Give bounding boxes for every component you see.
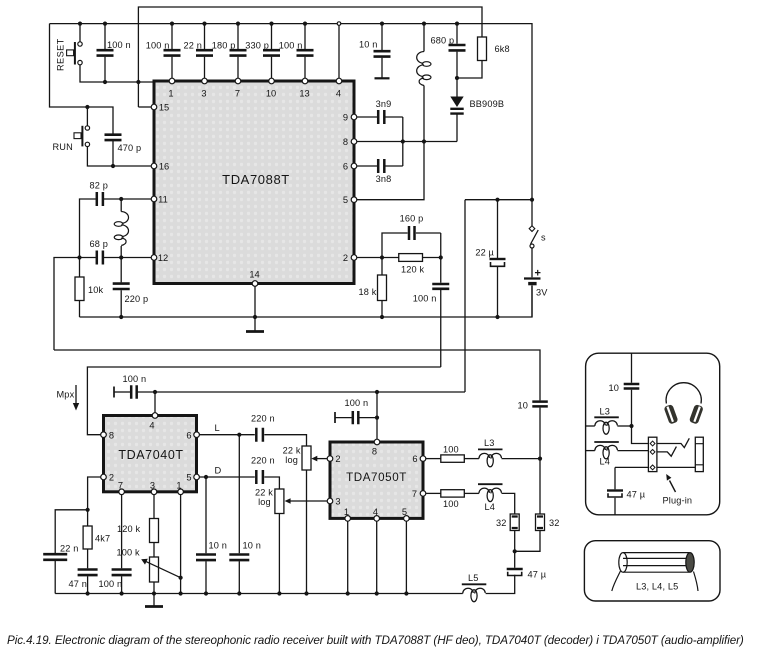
svg-text:2: 2 bbox=[335, 454, 340, 464]
wire 470p bottom lead bbox=[112, 140, 114, 166]
junction (457,23.6) bbox=[455, 22, 459, 26]
capacitor 330p (pin10) bbox=[271, 24, 273, 81]
svg-text:Plug-in: Plug-in bbox=[663, 496, 693, 506]
pin 7 U2 bbox=[119, 489, 125, 495]
ferrite rod bbox=[612, 553, 698, 591]
svg-text:10 n: 10 n bbox=[209, 541, 227, 551]
junction (206,477) bbox=[204, 475, 208, 479]
svg-text:6k8: 6k8 bbox=[495, 44, 510, 54]
svg-text:Pic.4.19. Electronic diagram o: Pic.4.19. Electronic diagram of the ster… bbox=[7, 634, 744, 647]
wire pin1 (7040) bbox=[180, 492, 182, 594]
svg-text:100 n: 100 n bbox=[345, 398, 369, 408]
svg-text:log: log bbox=[285, 455, 298, 465]
junction (79.5,257.5) bbox=[77, 255, 81, 259]
junction (180.6,577.7) bbox=[179, 576, 183, 580]
wire pin8 riser (7050) bbox=[376, 392, 378, 439]
svg-text:3n8: 3n8 bbox=[376, 174, 392, 184]
svg-text:4: 4 bbox=[149, 421, 154, 431]
junction (305,23.6) bbox=[303, 22, 307, 26]
junction (121.2,199) bbox=[119, 197, 123, 201]
svg-text:3V: 3V bbox=[536, 288, 548, 298]
junction (440.75,257.5) bbox=[439, 255, 443, 259]
capacitor 47n bbox=[78, 570, 98, 576]
resistor 18k bbox=[381, 258, 383, 318]
pin 6 U2 bbox=[194, 432, 200, 438]
svg-text:100 n: 100 n bbox=[279, 41, 303, 51]
wire pin8 to coil node bbox=[354, 141, 424, 143]
svg-text:220 p: 220 p bbox=[125, 294, 149, 304]
svg-text:TDA7088T: TDA7088T bbox=[222, 172, 290, 187]
pin 2 U3 bbox=[327, 456, 333, 462]
resistor 120k (pin2) bbox=[399, 254, 423, 262]
capacitor 180p (pin7) bbox=[237, 24, 239, 81]
junction (87.6,509.8) bbox=[86, 508, 90, 512]
wire to 22n bbox=[55, 510, 87, 553]
junction (540,458.6) bbox=[538, 457, 542, 461]
pin 8 U3 bbox=[374, 439, 380, 445]
svg-text:120 k: 120 k bbox=[401, 265, 424, 275]
svg-text:RESET: RESET bbox=[56, 38, 66, 71]
wire supply riser x=465 bbox=[464, 200, 466, 392]
svg-text:4k7: 4k7 bbox=[95, 534, 110, 544]
resistor 120k (pin3 7040) bbox=[153, 492, 155, 519]
pin 16 U1 bbox=[151, 163, 157, 169]
inductor L4 (plug box) bbox=[586, 450, 595, 452]
pin 2 U1 bbox=[351, 255, 357, 261]
capacitor 3n9 (pin9) bbox=[354, 116, 403, 118]
svg-text:BB909B: BB909B bbox=[470, 99, 505, 109]
switch RUN bbox=[74, 126, 90, 147]
junction (279.4,593.5) bbox=[277, 591, 281, 595]
capacitor 220n (L) bbox=[256, 428, 263, 442]
capacitor 10 (plug box) bbox=[631, 353, 633, 426]
capacitor 47u (output) bbox=[514, 551, 516, 568]
wire pin2 (7040) branch bbox=[88, 477, 101, 510]
pin 8 U1 bbox=[351, 139, 357, 145]
svg-text:100 n: 100 n bbox=[107, 40, 131, 50]
svg-text:100 n: 100 n bbox=[146, 41, 170, 51]
pin 6 U1 bbox=[351, 163, 357, 169]
pin 5 U3 bbox=[404, 516, 410, 522]
junction (206,593.5) bbox=[204, 591, 208, 595]
junction (347.7,593.5) bbox=[346, 591, 350, 595]
pin 4 U2 bbox=[152, 413, 158, 419]
capacitor 22n (pin3) bbox=[204, 24, 206, 81]
wire RESET bottom to IC corner bbox=[80, 65, 154, 82]
svg-text:10 n: 10 n bbox=[359, 40, 377, 50]
svg-text:L3, L4, L5: L3, L4, L5 bbox=[636, 582, 678, 592]
svg-text:L4: L4 bbox=[600, 457, 611, 467]
wire bottom bus bbox=[55, 575, 515, 594]
plug-in box bbox=[586, 353, 720, 515]
resistor 10k bbox=[79, 258, 81, 318]
inductor L2 oscillator coil bbox=[423, 24, 425, 142]
svg-text:5: 5 bbox=[402, 507, 407, 517]
capacitor 100n (pin2 node) bbox=[440, 233, 442, 367]
pin 4 U3 bbox=[374, 516, 380, 522]
junction (497.5,199.7) bbox=[495, 198, 499, 202]
junction (497.5,317) bbox=[495, 315, 499, 319]
resistor 100 (pin6 7050) bbox=[426, 458, 441, 460]
svg-text:+: + bbox=[535, 268, 541, 280]
pin 8 U2 bbox=[101, 432, 107, 438]
svg-text:120 k: 120 k bbox=[117, 524, 140, 534]
svg-text:220 n: 220 n bbox=[251, 414, 275, 424]
wire 7050 bottom pins bbox=[348, 518, 407, 593]
capacitor 22n bbox=[43, 554, 67, 560]
junction (80,23.6) bbox=[78, 22, 82, 26]
resistor 32 (left) bbox=[510, 514, 519, 531]
junction (382,23.6) bbox=[380, 22, 384, 26]
junction (424,23.6) bbox=[422, 22, 426, 26]
pin 5 U1 bbox=[351, 197, 357, 203]
svg-text:TDA7050T: TDA7050T bbox=[346, 471, 407, 484]
junction (105,23.6) bbox=[103, 22, 107, 26]
pin 6 U3 bbox=[420, 456, 426, 462]
svg-text:2: 2 bbox=[109, 473, 114, 483]
svg-text:220 n: 220 n bbox=[251, 456, 275, 466]
svg-text:5: 5 bbox=[186, 473, 191, 483]
resistor 6k8 bbox=[478, 37, 487, 61]
junction (424,141.5) bbox=[422, 139, 426, 143]
svg-text:8: 8 bbox=[372, 447, 377, 457]
capacitor 100n (pin7 7040) bbox=[121, 492, 123, 569]
wire D line (pin5 7040) bbox=[199, 476, 254, 478]
svg-text:100 n: 100 n bbox=[123, 374, 147, 384]
svg-text:22 k: 22 k bbox=[255, 488, 273, 498]
junction (105,82) bbox=[103, 80, 107, 84]
svg-text:47 µ: 47 µ bbox=[627, 490, 646, 500]
svg-text:10: 10 bbox=[266, 89, 276, 99]
jack plug body bbox=[695, 437, 703, 471]
svg-text:D: D bbox=[215, 466, 222, 476]
wire pin4 riser (7040) bbox=[154, 392, 156, 413]
svg-text:s: s bbox=[541, 233, 546, 243]
IC U3 TDA7050T bbox=[330, 442, 423, 518]
svg-text:14: 14 bbox=[249, 270, 259, 280]
wire varicap bottom to coil bbox=[424, 141, 457, 143]
junction (377,392) bbox=[375, 390, 379, 394]
svg-text:6: 6 bbox=[412, 454, 417, 464]
svg-text:680 p: 680 p bbox=[431, 36, 455, 46]
svg-text:32: 32 bbox=[549, 518, 560, 528]
junction (376.7,593.5) bbox=[375, 591, 379, 595]
capacitor 220p bbox=[120, 258, 122, 318]
diode BB909B varicap bbox=[456, 78, 458, 142]
svg-text:10: 10 bbox=[518, 401, 529, 411]
junction (239.3,434.7) bbox=[237, 433, 241, 437]
svg-text:6: 6 bbox=[186, 431, 191, 441]
ground (pin14) bbox=[246, 330, 264, 333]
battery 3V bbox=[524, 277, 541, 279]
svg-text:180 p: 180 p bbox=[212, 41, 236, 51]
capacitor 10n (D) bbox=[205, 477, 207, 594]
capacitor 22u electrolytic bbox=[497, 200, 499, 317]
junction (377,417.6) bbox=[375, 416, 379, 420]
pin 1 U1 bbox=[169, 78, 175, 84]
svg-text:22 k: 22 k bbox=[283, 446, 301, 456]
capacitor 68p bbox=[54, 258, 154, 351]
junction (457,78) bbox=[455, 76, 459, 80]
svg-text:3: 3 bbox=[201, 89, 206, 99]
pin 2 U2 bbox=[101, 474, 107, 480]
svg-text:22 n: 22 n bbox=[60, 544, 78, 554]
svg-text:10k: 10k bbox=[88, 285, 104, 295]
resistor 4k7 bbox=[87, 510, 89, 526]
junction (402.8,141.5) bbox=[401, 139, 405, 143]
capacitor 10 (to phones) bbox=[532, 402, 548, 407]
svg-text:7: 7 bbox=[412, 489, 417, 499]
wire pin12 long line to 10 cap bbox=[54, 350, 540, 400]
wire pin4 to bus bbox=[338, 24, 340, 81]
capacitor 160p bbox=[382, 233, 441, 258]
headphones icon bbox=[666, 383, 701, 404]
svg-text:1: 1 bbox=[344, 507, 349, 517]
junction (180.6,593.5) bbox=[179, 591, 183, 595]
node pin4 bus (open) bbox=[337, 22, 341, 26]
pin 13 U1 bbox=[302, 78, 308, 84]
wire jack sleeve bbox=[657, 466, 695, 468]
svg-text:L5: L5 bbox=[468, 573, 479, 583]
svg-text:82 p: 82 p bbox=[90, 181, 108, 191]
IC U1 TDA7088T bbox=[154, 81, 354, 284]
junction (155,392) bbox=[153, 390, 157, 394]
wire pin2 node bbox=[354, 257, 399, 259]
svg-text:330 p: 330 p bbox=[245, 41, 269, 51]
wire supply node y=199.7 bbox=[465, 199, 532, 201]
svg-text:3n9: 3n9 bbox=[376, 99, 392, 109]
svg-text:4: 4 bbox=[373, 507, 378, 517]
inductor L1 tuning coil bbox=[120, 199, 122, 258]
pin 11 U1 bbox=[151, 196, 157, 202]
pin 3 U3 bbox=[327, 498, 333, 504]
junction (255,317) bbox=[253, 315, 257, 319]
pin 14 U1 bbox=[252, 281, 258, 287]
resistor 100 (pin7 7050) bbox=[426, 492, 441, 494]
wire RUN bottom to pin16 bbox=[87, 146, 151, 166]
inductor L4 bbox=[479, 488, 502, 501]
svg-text:6: 6 bbox=[343, 162, 348, 172]
junction (238,23.6) bbox=[236, 22, 240, 26]
svg-text:100: 100 bbox=[443, 499, 459, 509]
junction (113,166) bbox=[111, 164, 115, 168]
wire V+ rail y=392 bbox=[137, 391, 465, 393]
pin 12 U1 bbox=[151, 255, 157, 261]
svg-text:13: 13 bbox=[299, 89, 309, 99]
svg-text:47 n: 47 n bbox=[69, 579, 87, 589]
svg-text:9: 9 bbox=[343, 113, 348, 123]
svg-text:68 p: 68 p bbox=[90, 239, 108, 249]
svg-text:RUN: RUN bbox=[53, 142, 73, 152]
svg-text:log: log bbox=[258, 497, 271, 507]
wire pin5 riser bbox=[354, 142, 424, 200]
svg-text:3: 3 bbox=[150, 481, 155, 491]
wire RUN top riser bbox=[86, 107, 88, 126]
svg-text:5: 5 bbox=[343, 195, 348, 205]
switch RESET bbox=[67, 42, 83, 65]
svg-text:18 k: 18 k bbox=[359, 287, 377, 297]
potentiometer 100k bbox=[153, 543, 155, 558]
wire 3n9/3n8 junction vertical bbox=[402, 117, 404, 166]
svg-text:12: 12 bbox=[158, 253, 168, 263]
junction (121.2,257.5) bbox=[119, 255, 123, 259]
junction (406.4,593.5) bbox=[404, 591, 408, 595]
pin 4 U1 bbox=[336, 78, 342, 84]
junction (271.5,23.6) bbox=[269, 22, 273, 26]
svg-text:7: 7 bbox=[235, 89, 240, 99]
junction (121.6,593.5) bbox=[120, 591, 124, 595]
capacitor 82p bbox=[80, 199, 155, 258]
svg-text:470 p: 470 p bbox=[118, 143, 142, 153]
svg-text:TDA7040T: TDA7040T bbox=[118, 448, 183, 462]
junction (87.6,593.5) bbox=[86, 591, 90, 595]
pin 10 U1 bbox=[269, 78, 275, 84]
capacitor 100n (pin1) bbox=[171, 24, 173, 81]
svg-text:100 n: 100 n bbox=[99, 579, 123, 589]
svg-text:4: 4 bbox=[336, 89, 341, 99]
capacitor 100n (reset) bbox=[104, 24, 106, 82]
wire pin14 to ground bbox=[254, 284, 256, 332]
svg-text:15: 15 bbox=[159, 103, 169, 113]
junction (138.4,82) bbox=[136, 80, 140, 84]
svg-text:10 n: 10 n bbox=[243, 541, 261, 551]
pin 7 U3 bbox=[420, 491, 426, 497]
wire supply bus y=23.6 bbox=[50, 24, 533, 200]
potentiometer 22k log (D) bbox=[275, 489, 284, 514]
svg-text:22 n: 22 n bbox=[184, 41, 202, 51]
inductor L5 bbox=[463, 588, 486, 601]
pin 1 U2 bbox=[178, 489, 184, 495]
svg-text:2: 2 bbox=[343, 253, 348, 263]
junction (239.3,593.5) bbox=[237, 591, 241, 595]
svg-text:L4: L4 bbox=[485, 502, 496, 512]
junction (121.2,317) bbox=[119, 315, 123, 319]
junction (532,199.7) bbox=[530, 198, 534, 202]
svg-text:L3: L3 bbox=[600, 407, 611, 417]
svg-text:100: 100 bbox=[443, 445, 459, 455]
ground (7040) bbox=[153, 594, 155, 607]
junction (87.4,107) bbox=[85, 105, 89, 109]
pin 1 U3 bbox=[345, 516, 351, 522]
capacitor 10n antenna bbox=[381, 24, 383, 78]
resistor 32 (right) bbox=[539, 459, 541, 514]
svg-text:8: 8 bbox=[343, 137, 348, 147]
capacitor 100n (decoder supply) bbox=[113, 387, 115, 398]
svg-text:7: 7 bbox=[118, 481, 123, 491]
jack switch contacts bbox=[657, 438, 689, 447]
wire left riser from bus to 470p/RUN line bbox=[50, 24, 114, 134]
svg-text:L3: L3 bbox=[484, 438, 495, 448]
junction (154,593.5) bbox=[152, 591, 156, 595]
capacitor 470p bbox=[105, 135, 122, 140]
svg-text:160 p: 160 p bbox=[400, 214, 424, 224]
switch S bbox=[531, 200, 533, 226]
inductor L3 bbox=[479, 453, 502, 466]
wire to jack tip bbox=[632, 426, 649, 444]
junction (382,257.5) bbox=[380, 255, 384, 259]
junction (204.5,23.6) bbox=[202, 22, 206, 26]
svg-text:1: 1 bbox=[168, 89, 173, 99]
pin 5 U2 bbox=[194, 474, 200, 480]
svg-text:10: 10 bbox=[609, 383, 620, 393]
svg-text:8: 8 bbox=[109, 431, 114, 441]
capacitor 10n (L) bbox=[238, 435, 240, 594]
inductor L3 (plug box) bbox=[586, 425, 595, 427]
svg-text:22 µ: 22 µ bbox=[475, 248, 494, 258]
svg-text:47 µ: 47 µ bbox=[528, 570, 547, 580]
jack socket bbox=[648, 437, 657, 471]
pin 15 U1 bbox=[151, 104, 157, 110]
junction (514.7,551.3) bbox=[513, 549, 517, 553]
pin 7 U1 bbox=[235, 78, 241, 84]
svg-text:100 k: 100 k bbox=[117, 548, 140, 558]
pin 3 U1 bbox=[202, 78, 208, 84]
capacitor 100n (amp supply) bbox=[334, 412, 336, 423]
wire Mpx line bbox=[87, 367, 440, 435]
svg-text:L: L bbox=[215, 423, 220, 433]
svg-text:1: 1 bbox=[176, 481, 181, 491]
capacitor 3n8 (pin6) bbox=[354, 165, 403, 167]
wire pin15 to riser bbox=[138, 106, 151, 108]
wire ground bus y=317 bbox=[80, 286, 533, 317]
wire top rail to 6k8 bbox=[138, 7, 482, 107]
svg-text:100 n: 100 n bbox=[413, 294, 437, 304]
ferrite rod box bbox=[584, 541, 720, 601]
svg-text:Mpx: Mpx bbox=[57, 390, 75, 400]
capacitor 680p bbox=[456, 24, 458, 78]
pin 9 U1 bbox=[351, 114, 357, 120]
capacitor 47u (plug box) bbox=[614, 467, 616, 489]
junction (631.5,426) bbox=[629, 424, 633, 428]
wire L line (pin6 7040) bbox=[199, 434, 254, 436]
wire RESET top lead bbox=[79, 24, 81, 42]
capacitor 100n (pin13) bbox=[304, 24, 306, 81]
IC U2 TDA7040T bbox=[104, 416, 197, 492]
junction (172,23.6) bbox=[170, 22, 174, 26]
svg-text:32: 32 bbox=[496, 518, 507, 528]
junction (306.5,593.5) bbox=[304, 591, 308, 595]
svg-text:16: 16 bbox=[159, 162, 169, 172]
capacitor 220n (D) bbox=[256, 470, 263, 484]
svg-text:11: 11 bbox=[158, 195, 168, 205]
potentiometer 22k log (L) bbox=[302, 446, 311, 470]
junction (382,317) bbox=[380, 315, 384, 319]
svg-text:3: 3 bbox=[335, 497, 340, 507]
pin 3 U2 bbox=[151, 489, 157, 495]
